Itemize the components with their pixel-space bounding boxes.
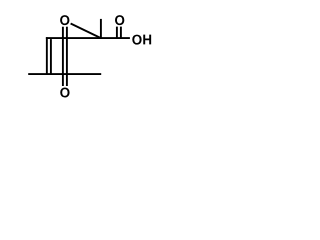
- wire: carboxyl C=O left line: [116, 27, 118, 38]
- wire: ring left edge C=C inner line: [50, 39, 52, 74]
- node B: carboxyl oxygen atom label O: [115, 15, 124, 25]
- wire: top horizontal bond chain from ring top-left corner to carboxyl carbon: [46, 37, 130, 39]
- wire: carboxyl C=O right line: [120, 27, 122, 38]
- wire: ring left edge C=C outer line: [46, 37, 48, 75]
- wire: bottom horizontal bond chain with methyl ends: [28, 73, 101, 75]
- node A: top oxygen atom label O: [60, 15, 69, 25]
- wire: diagonal bond from top O to quaternary carbon: [71, 24, 101, 39]
- wire: vertical double-bond line (right) through ring right edge to both O atoms: [66, 27, 68, 86]
- node E: hydroxyl label H of OH: [143, 35, 151, 45]
- node D: hydroxyl label O of OH: [132, 35, 141, 45]
- wire: methyl bond up from quaternary carbon: [100, 19, 102, 38]
- wire: vertical double-bond line (left) through ring right edge to both O atoms: [62, 27, 64, 86]
- node C: bottom oxygen atom label O: [60, 88, 69, 98]
